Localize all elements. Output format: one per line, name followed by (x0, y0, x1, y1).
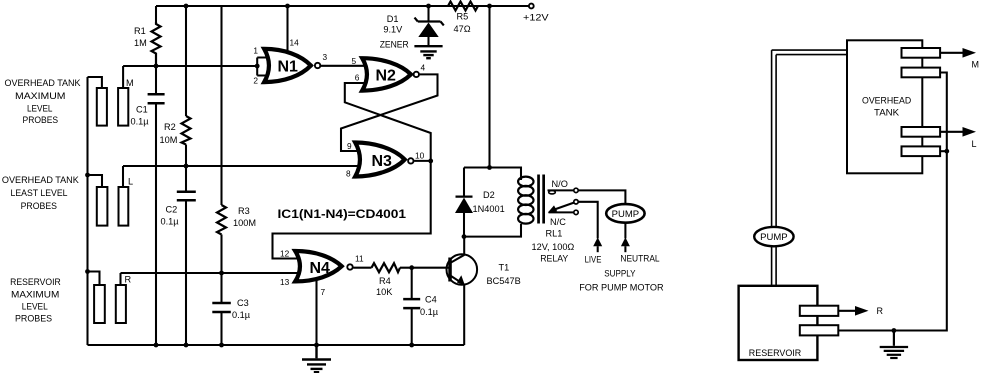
svg-text:9.1V: 9.1V (383, 25, 403, 35)
svg-text:OVERHEAD TANK: OVERHEAD TANK (2, 175, 79, 185)
ground symbol zener (414, 46, 442, 58)
node R4/C4 junction (409, 265, 414, 270)
wire pin 14 (286, 6, 288, 52)
probe reservoir common (94, 285, 105, 323)
svg-text:12: 12 (280, 248, 290, 258)
node top rail +12V branch (487, 4, 492, 9)
resistor R2 (160, 6, 191, 166)
relay RL1 coil (518, 175, 574, 264)
svg-text:0.1µ: 0.1µ (161, 217, 180, 227)
svg-text:T1: T1 (499, 263, 510, 273)
svg-text:LEVEL: LEVEL (27, 104, 53, 114)
probe reservoir upper (800, 306, 839, 316)
svg-text:PROBES: PROBES (15, 314, 52, 324)
svg-text:12V, 100Ω: 12V, 100Ω (532, 242, 575, 252)
wire probe M to M line (122, 66, 124, 88)
svg-text:+12V: +12V (523, 12, 550, 22)
wire top rail corner to R1 (155, 6, 157, 22)
node top rail to pin14 (285, 4, 290, 9)
svg-text:D1: D1 (387, 14, 399, 24)
svg-text:47Ω: 47Ω (454, 24, 471, 34)
node rail C3 (219, 343, 224, 348)
wire N/O to pump motor (578, 190, 625, 204)
svg-text:RESERVOIR: RESERVOIR (749, 348, 802, 358)
svg-text:L: L (972, 139, 977, 149)
wire collector up to D2 node (463, 237, 465, 255)
svg-text:0.1µ: 0.1µ (232, 310, 251, 320)
svg-text:5: 5 (352, 56, 357, 66)
probe tank max M (118, 88, 128, 126)
svg-text:R2: R2 (164, 122, 176, 132)
node N3 output junction (428, 159, 433, 164)
motor PUMP right diagram (754, 227, 793, 246)
op-amp gate N1 (253, 45, 327, 85)
svg-text:R4: R4 (379, 276, 391, 286)
wire top supply rail (156, 5, 529, 7)
wire tank M common down (838, 73, 947, 331)
svg-text:10K: 10K (376, 287, 393, 297)
wire tank L lower to common (940, 150, 947, 152)
svg-text:N3: N3 (372, 153, 393, 170)
wire R probe line (121, 272, 302, 274)
svg-text:OVERHEAD TANK: OVERHEAD TANK (5, 78, 81, 88)
wire probe R to R line (119, 273, 121, 285)
diode D1 zener (380, 6, 444, 49)
wire N1 input bar pins 1,2 (257, 58, 270, 76)
svg-text:6: 6 (355, 73, 360, 83)
wire N2 pin6 feedback entry (345, 83, 431, 161)
bubble N3 output (408, 158, 413, 163)
svg-text:MAXIMUM: MAXIMUM (11, 290, 59, 300)
node R1/C1 junction on M line (154, 64, 159, 69)
relay armature common (548, 200, 578, 213)
arrow neutral supply (621, 237, 630, 246)
wire left common probe wire (86, 77, 88, 345)
svg-text:C1: C1 (136, 105, 148, 115)
label reservoir maximum level probes (10, 277, 61, 324)
relay contact N/O (548, 179, 579, 194)
capacitor C4 (403, 268, 439, 345)
probe tank L lower (902, 146, 941, 156)
arrow R (838, 310, 856, 312)
node tank common junction (944, 149, 949, 154)
svg-text:LIVE: LIVE (585, 254, 602, 264)
probe reservoir R (116, 285, 126, 323)
wire relay bottom (464, 224, 521, 237)
svg-text:11: 11 (355, 254, 364, 264)
ground symbol right diagram (880, 331, 908, 359)
wire bottom ground rail (88, 344, 465, 346)
overhead tank box (847, 40, 922, 173)
svg-text:OVERHEAD: OVERHEAD (862, 96, 912, 106)
svg-text:PUMP: PUMP (760, 232, 787, 243)
svg-text:13: 13 (280, 277, 290, 287)
svg-text:N1: N1 (278, 59, 299, 76)
relay contact N/C (549, 210, 579, 227)
svg-text:C2: C2 (166, 205, 178, 215)
svg-text:MAXIMUM: MAXIMUM (15, 91, 66, 101)
node tank least junction (85, 173, 90, 178)
wire emitter down to ground rail (463, 285, 465, 345)
wire pump to neutral (624, 223, 626, 239)
arrow L (940, 131, 964, 133)
resistor R1 (134, 22, 161, 66)
svg-text:RL1: RL1 (546, 228, 563, 238)
wire N4 pin 7 to ground rail (315, 280, 317, 345)
capacitor C1 (131, 66, 165, 345)
node rail C1 (154, 343, 159, 348)
label overhead tank least level probes (2, 175, 79, 211)
svg-text:RESERVOIR: RESERVOIR (10, 277, 61, 287)
svg-text:N4: N4 (310, 260, 331, 277)
motor PUMP (606, 204, 644, 223)
svg-text:M: M (972, 60, 980, 70)
node R3/C3 junction on R line (219, 271, 224, 276)
wire tank max left probe connector (88, 77, 102, 88)
svg-text:C4: C4 (425, 295, 437, 305)
pipe tank to pump double line (772, 50, 847, 286)
svg-text:LEAST LEVEL: LEAST LEVEL (11, 188, 68, 198)
probe tank L upper (902, 127, 941, 137)
resistor R3 (217, 6, 256, 273)
svg-text:R3: R3 (238, 206, 250, 216)
terminal +12V (529, 4, 534, 9)
svg-text:9: 9 (347, 141, 352, 151)
svg-text:1M: 1M (134, 38, 147, 48)
svg-text:C3: C3 (237, 298, 249, 308)
node relay top junction (487, 165, 492, 170)
node D2 bottom collector junction (462, 234, 467, 239)
svg-text:IC1(N1-N4)=CD4001: IC1(N1-N4)=CD4001 (278, 207, 407, 221)
node reservoir junction (85, 269, 90, 274)
op-amp gate N2 (352, 56, 426, 91)
bubble N4 output (347, 264, 352, 269)
capacitor C2 (161, 166, 196, 345)
resistor R4 (372, 263, 401, 297)
wire reservoir left probe connector (88, 272, 100, 286)
wire L probe line (123, 165, 366, 167)
node R2/C2 junction on L line (184, 164, 189, 169)
node top rail zener (426, 4, 431, 9)
svg-text:SUPPLY: SUPPLY (604, 268, 635, 278)
svg-text:PROBES: PROBES (21, 201, 57, 211)
node rail C4 (409, 343, 414, 348)
svg-text:NEUTRAL: NEUTRAL (620, 253, 659, 263)
svg-text:BC547B: BC547B (487, 276, 521, 286)
bubble N2 output (414, 72, 419, 77)
svg-text:1: 1 (253, 45, 258, 55)
node ground junction right (892, 328, 897, 333)
svg-text:PROBES: PROBES (23, 115, 59, 125)
svg-text:RELAY: RELAY (540, 253, 568, 263)
svg-text:ZENER: ZENER (380, 39, 409, 49)
svg-text:10M: 10M (160, 135, 178, 145)
wire N3 out down to N4 pin12 (273, 161, 431, 259)
svg-text:LEVEL: LEVEL (22, 302, 48, 312)
probe reservoir lower (800, 325, 839, 335)
wire N3 out to junction (414, 160, 431, 162)
probe tank M lower (902, 68, 941, 78)
svg-text:10: 10 (415, 151, 425, 161)
wire N4 out to R4 (353, 267, 371, 269)
capacitor C3 (212, 273, 250, 345)
wire probe L to L line (122, 166, 124, 187)
svg-text:R5: R5 (457, 12, 469, 22)
wire R4 to transistor base (400, 267, 449, 269)
wire N2 out cross to N3 pin9 (341, 74, 438, 151)
svg-text:7: 7 (321, 287, 326, 297)
wire common to live (578, 202, 598, 239)
svg-text:14: 14 (290, 38, 300, 48)
wire N1 out to N2 pin5 (321, 65, 376, 67)
wire +12V down to relay (488, 6, 490, 168)
svg-text:N/C: N/C (550, 217, 566, 227)
svg-text:8: 8 (346, 169, 351, 179)
wire relay top (464, 168, 521, 181)
node rail pin7 (314, 343, 319, 348)
svg-text:1N4001: 1N4001 (473, 204, 505, 214)
svg-text:0.1µ: 0.1µ (131, 117, 150, 127)
ground symbol main rail (302, 345, 331, 372)
node top rail to R2 (184, 4, 189, 9)
svg-text:FOR PUMP MOTOR: FOR PUMP MOTOR (579, 282, 664, 292)
svg-text:4: 4 (421, 63, 426, 73)
wire M probe line (123, 65, 256, 67)
probe tank max common (97, 88, 107, 126)
probe tank least common (97, 187, 108, 226)
op-amp gate N3 (346, 141, 425, 179)
arrow live supply (593, 237, 602, 246)
label overhead tank maximum level probes (5, 78, 81, 125)
op-amp gate N4 (295, 251, 364, 281)
arrow M (940, 52, 964, 54)
svg-text:N2: N2 (376, 68, 397, 85)
resistor R5 (448, 2, 478, 35)
svg-text:R1: R1 (134, 26, 146, 36)
wire tank least left probe connector (88, 175, 103, 187)
svg-text:D2: D2 (483, 190, 495, 200)
svg-text:100M: 100M (233, 218, 256, 228)
svg-text:M: M (126, 78, 134, 88)
svg-text:TANK: TANK (874, 108, 900, 118)
svg-text:PUMP: PUMP (612, 209, 639, 220)
reservoir box (739, 286, 818, 360)
svg-text:3: 3 (323, 52, 328, 62)
transistor Q1 BC547B (447, 254, 521, 286)
svg-text:2: 2 (253, 76, 258, 86)
svg-text:N/O: N/O (552, 179, 568, 189)
svg-text:L: L (128, 177, 133, 187)
diode D2 1N4001 (455, 168, 505, 237)
svg-text:R: R (877, 306, 884, 316)
node N1 input junction (255, 64, 260, 69)
probe tank least L (119, 187, 129, 226)
svg-text:R: R (125, 275, 132, 285)
node rail C2 (184, 343, 189, 348)
probe tank M upper (902, 48, 941, 58)
svg-text:0.1µ: 0.1µ (420, 307, 439, 317)
bubble N1 output (315, 63, 320, 68)
